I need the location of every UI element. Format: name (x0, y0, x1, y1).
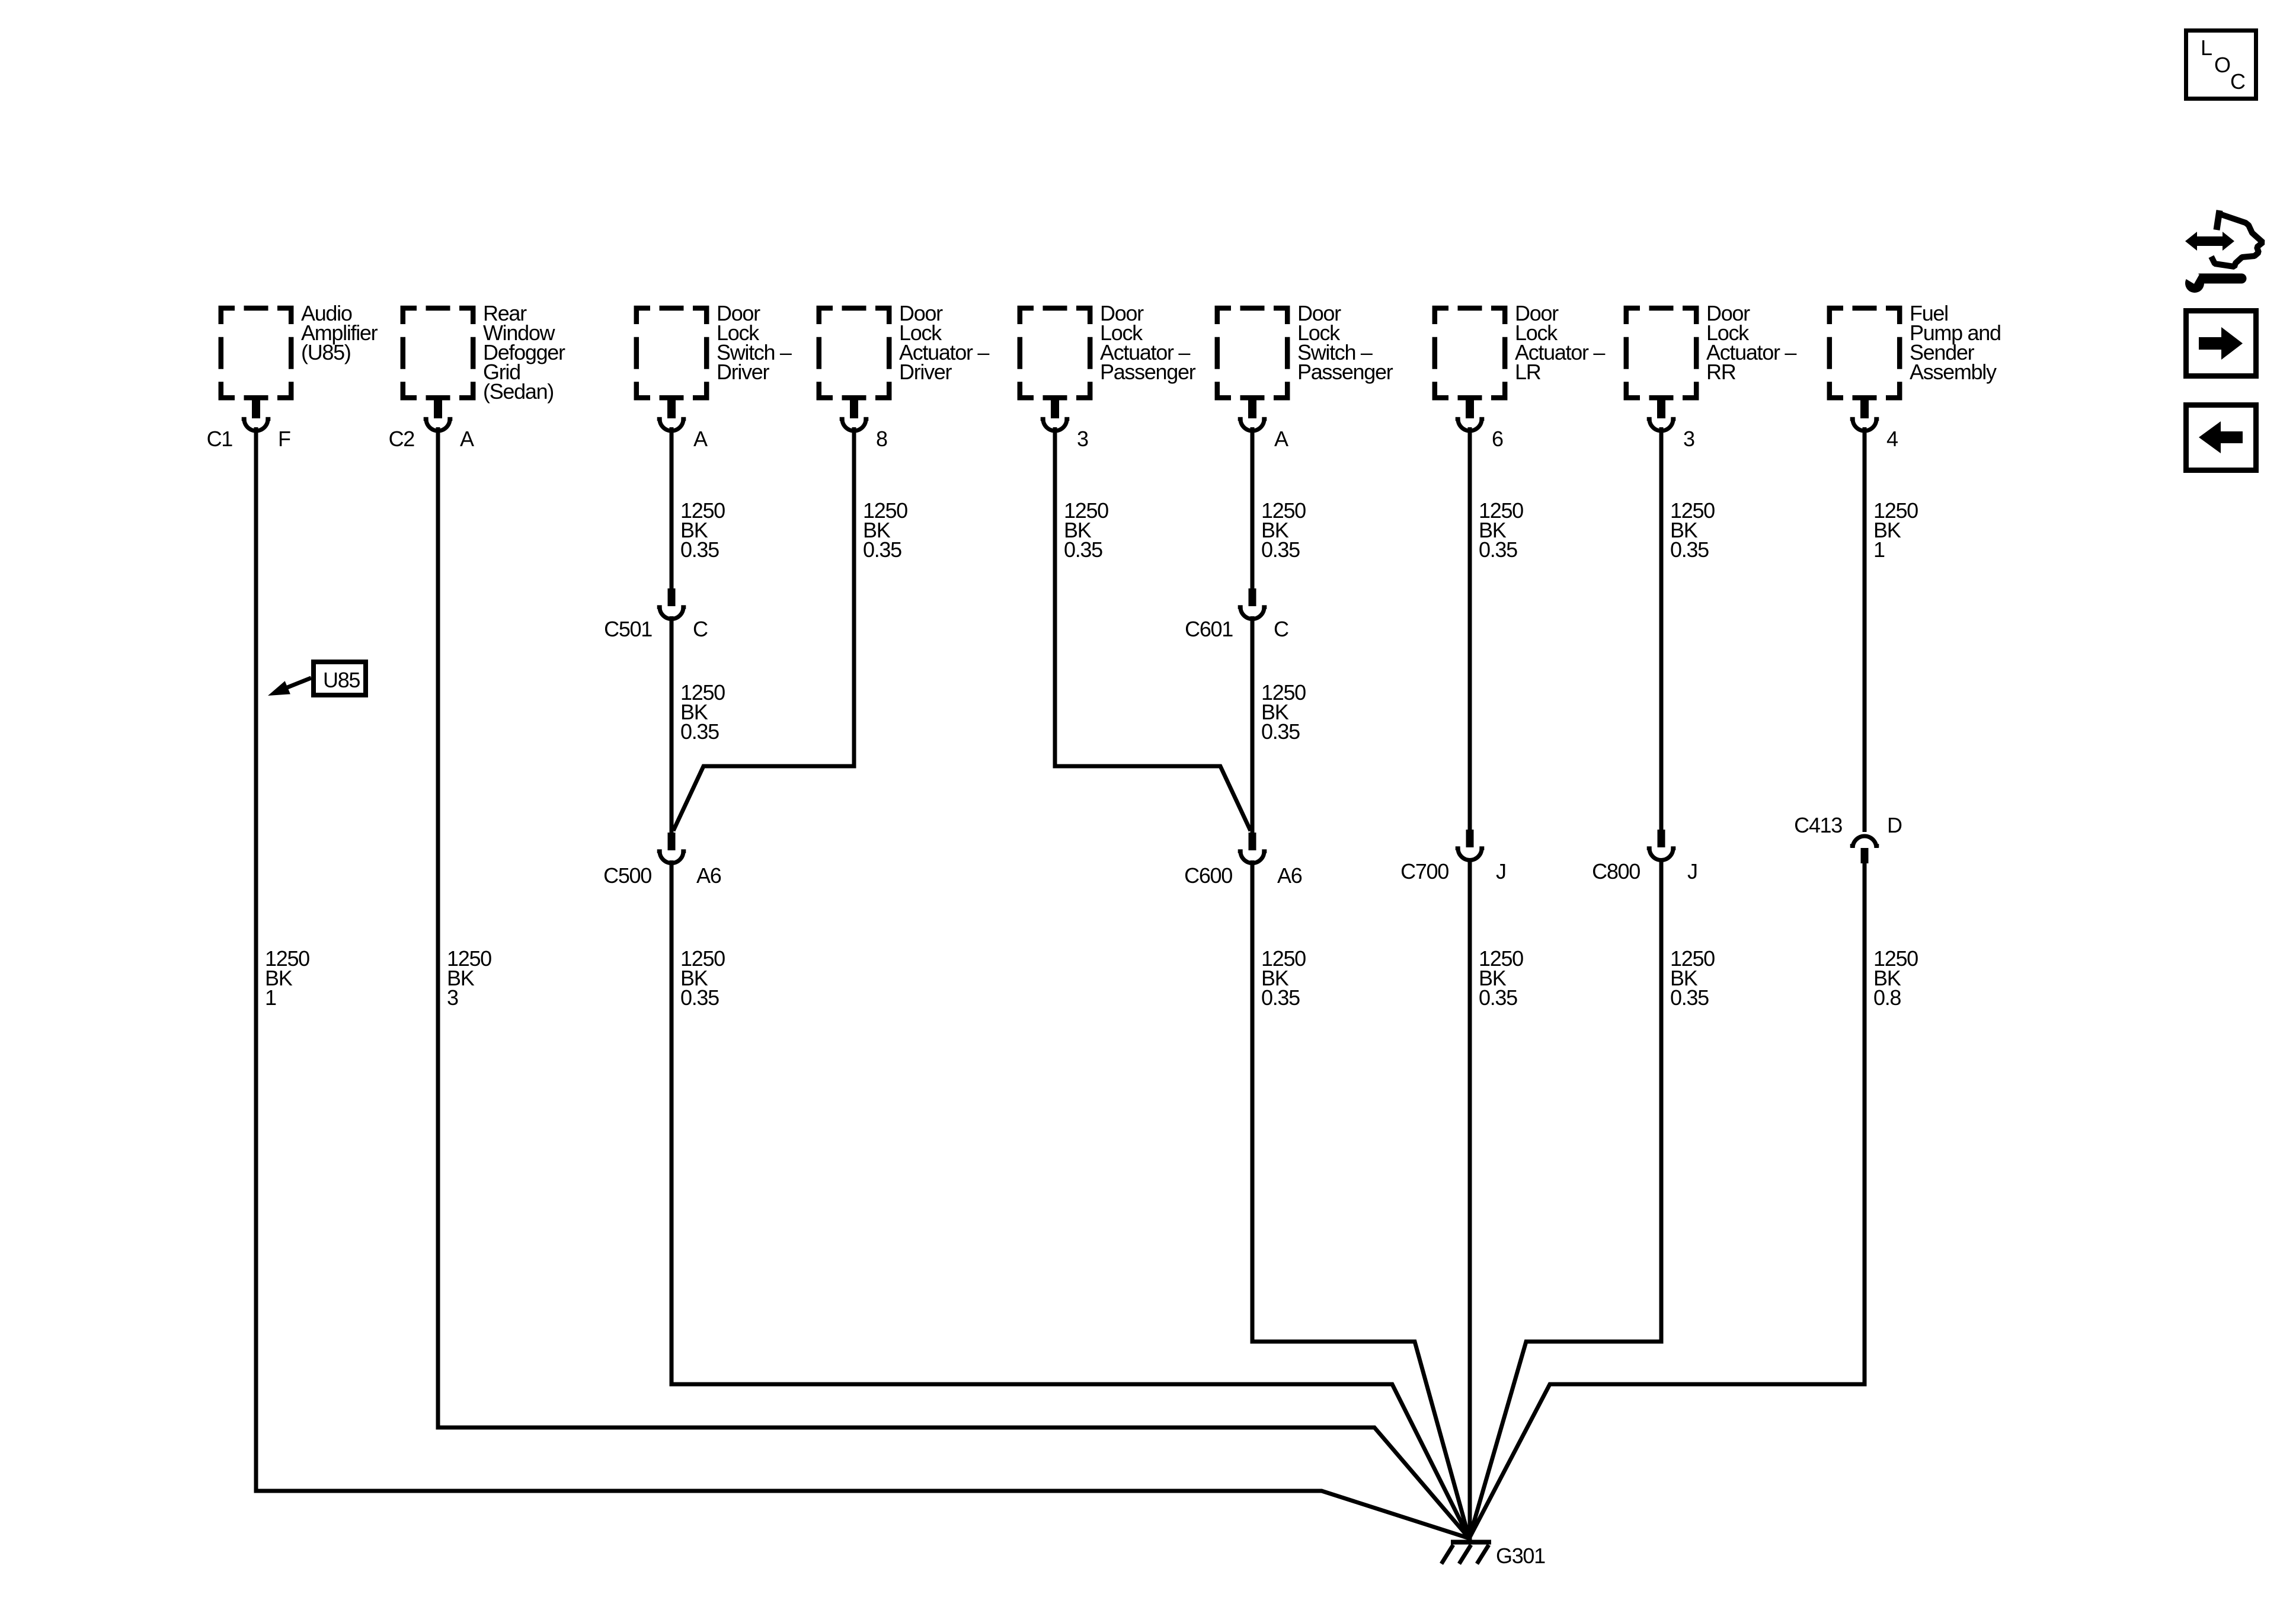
svg-text:L: L (2201, 36, 2212, 60)
wire Door Lock Actuator LR 6 to C700 (1468, 427, 1472, 830)
connector pin symbol at Rear Window Defogger Grid (Sedan) (424, 395, 453, 431)
pin label 6 at Door Lock Actuator - LR (1492, 427, 1503, 451)
wire label 1250 BK (upper) at x=2480 (1479, 498, 1523, 562)
svg-text:O: O (2214, 53, 2230, 77)
wire Door Lock Switch Driver A to C501 (670, 427, 674, 588)
wire C601 to C600 (1251, 616, 1255, 833)
pin label 4 at Fuel Pump and Sender Assembly (1886, 427, 1898, 451)
svg-text:0.35: 0.35 (680, 719, 719, 744)
wire Fuel Pump 4 to C413 (1863, 427, 1867, 832)
wire label 1250 BK 0.35 (middle) at x=2113 (1261, 680, 1306, 744)
icon: back arrow button (2186, 405, 2256, 470)
label text: Fuel Pump and Sender Assembly (1910, 301, 2001, 384)
svg-text:A6: A6 (696, 863, 721, 888)
svg-text:C501: C501 (604, 617, 652, 641)
svg-text:0.35: 0.35 (1261, 719, 1300, 744)
component box: Door Lock Actuator - Passenger (1020, 308, 1090, 398)
svg-text:8: 8 (876, 427, 887, 451)
wire label 1250 BK (lower) at x=739 (447, 946, 491, 1010)
svg-text:(Sedan): (Sedan) (483, 379, 554, 404)
svg-text:(U85): (U85) (301, 340, 351, 364)
svg-text:Passenger: Passenger (1297, 360, 1393, 384)
label text: Door Lock Switch - Driver (717, 301, 792, 384)
svg-text:J: J (1496, 859, 1506, 884)
svg-text:Assembly: Assembly (1910, 360, 1997, 384)
svg-text:A: A (693, 427, 708, 451)
icon: component location (car outline with arrow and wrench) (2185, 210, 2263, 293)
label C500 / pin A6 (603, 863, 721, 888)
wire label 1250 BK (lower) at x=1133 (680, 946, 725, 1010)
LOC legend box (2186, 31, 2256, 99)
svg-text:C: C (1274, 617, 1288, 641)
svg-text:C1: C1 (207, 427, 233, 451)
svg-text:C601: C601 (1185, 617, 1233, 641)
inline connector C800 (1647, 830, 1676, 860)
svg-text:1: 1 (1873, 537, 1885, 562)
component box: Door Lock Actuator - Driver (819, 308, 889, 398)
svg-text:0.35: 0.35 (863, 537, 901, 562)
svg-text:0.35: 0.35 (1261, 537, 1300, 562)
wire label 1250 BK (upper) at x=3146 (1873, 498, 1918, 562)
wire C501 to C500 (670, 616, 674, 833)
svg-text:Passenger: Passenger (1100, 360, 1196, 384)
svg-text:0.35: 0.35 (680, 537, 719, 562)
svg-text:U85: U85 (323, 668, 360, 692)
svg-text:0.35: 0.35 (680, 985, 719, 1010)
wire label 1250 BK (upper) at x=1441 (863, 498, 907, 562)
connector pin symbol at Audio Amplifier (U85) (242, 395, 271, 431)
wire C800 to G301 (1469, 858, 1661, 1538)
wire label 1250 BK (lower) at x=2480 (1479, 946, 1523, 1010)
wire Door Lock Actuator RR 3 to C800 (1659, 427, 1664, 830)
svg-text:0.35: 0.35 (1261, 985, 1300, 1010)
svg-text:A6: A6 (1277, 863, 1302, 888)
inline connector C700 (1456, 830, 1485, 860)
label text: Rear Window Defogger Grid (Sedan) (483, 301, 565, 404)
label C800 / pin J (1592, 859, 1697, 884)
component box: Rear Window Defogger Grid (Sedan) (403, 308, 473, 398)
svg-text:A: A (1274, 427, 1288, 451)
svg-text:C413: C413 (1794, 813, 1842, 837)
connector pin symbol at Fuel Pump and Sender Assembly (1850, 395, 1879, 431)
component box: Fuel Pump and Sender Assembly (1830, 308, 1900, 398)
label C601 / pin C (1185, 617, 1288, 641)
label text: Door Lock Actuator - Passenger (1100, 301, 1196, 384)
wire label 1250 BK (upper) at x=1133 (680, 498, 725, 562)
label G301 (1496, 1544, 1545, 1568)
callout U85 (314, 662, 366, 695)
label text: Door Lock Actuator - RR (1706, 301, 1796, 384)
svg-text:0.35: 0.35 (1670, 985, 1709, 1010)
pin label F at Audio Amplifier (U85) (278, 427, 290, 451)
svg-text:6: 6 (1492, 427, 1503, 451)
inline connector C601 (1238, 588, 1267, 619)
svg-text:C800: C800 (1592, 859, 1640, 884)
pin label 8 at Door Lock Actuator - Driver (876, 427, 887, 451)
wire C600 to G301 (1252, 860, 1469, 1538)
connector pin symbol at Door Lock Switch - Passenger (1238, 395, 1267, 431)
svg-text:0.8: 0.8 (1873, 985, 1901, 1010)
component box: Door Lock Actuator - RR (1626, 308, 1696, 398)
label C600 / pin A6 (1184, 863, 1302, 888)
svg-text:1: 1 (265, 985, 276, 1010)
svg-text:C: C (2230, 69, 2245, 94)
svg-text:LR: LR (1515, 360, 1541, 384)
label C700 / pin J (1400, 859, 1506, 884)
wire label 1250 BK (lower) at x=432 (265, 946, 309, 1010)
wire label 1250 BK (upper) at x=1780 (1064, 498, 1108, 562)
svg-text:C2: C2 (389, 427, 415, 451)
wire Door Lock Actuator Passenger 3 to C600 (1055, 427, 1251, 831)
pin label A at Rear Window Defogger Grid (Sedan) (460, 427, 474, 451)
wire C500 to G301 (671, 860, 1469, 1538)
label text: Audio Amplifier (U85) (301, 301, 378, 364)
label text: Door Lock Actuator - LR (1515, 301, 1605, 384)
svg-text:4: 4 (1886, 427, 1898, 451)
wire C700 to G301 (1468, 858, 1472, 1541)
wire label 1250 BK (lower) at x=2113 (1261, 946, 1306, 1010)
svg-text:C: C (693, 617, 708, 641)
wire label 1250 BK (upper) at x=2113 (1261, 498, 1306, 562)
svg-text:C500: C500 (603, 863, 651, 888)
component box: Door Lock Switch - Driver (637, 308, 706, 398)
connector pin symbol at Door Lock Actuator - Passenger (1041, 395, 1070, 431)
label C413 / pin D (1794, 813, 1902, 837)
wire label 1250 BK (lower) at x=3146 (1873, 946, 1918, 1010)
pin label 3 at Door Lock Actuator - RR (1683, 427, 1694, 451)
component box: Audio Amplifier (U85) (221, 308, 291, 398)
inline connector C500 (657, 833, 686, 863)
icon: forward arrow button (2186, 311, 2256, 376)
connector pin symbol at Door Lock Actuator - RR (1647, 395, 1676, 431)
wire Door Lock Actuator Driver 8 to C500 (673, 427, 854, 831)
svg-text:3: 3 (1077, 427, 1088, 451)
pin label 3 at Door Lock Actuator - Passenger (1077, 427, 1088, 451)
ground G301 (1441, 1542, 1491, 1564)
component box: Door Lock Actuator - LR (1435, 308, 1505, 398)
pin label A at Door Lock Switch - Driver (693, 427, 708, 451)
svg-text:D: D (1887, 813, 1902, 837)
svg-text:0.35: 0.35 (1064, 537, 1102, 562)
wire from Rear Defogger C2-A to G301 (438, 427, 1469, 1538)
svg-text:0.35: 0.35 (1479, 985, 1517, 1010)
wire from Audio Amplifier C1-F to G301 (256, 427, 1469, 1538)
label text: Door Lock Actuator - Driver (899, 301, 989, 384)
wire Door Lock Switch Passenger A to C601 (1251, 427, 1255, 588)
component box: Door Lock Switch - Passenger (1217, 308, 1287, 398)
connector label C2 at Rear Window Defogger Grid (Sedan) (389, 427, 415, 451)
label C501 / pin C (604, 617, 708, 641)
svg-text:Driver: Driver (899, 360, 952, 384)
wire C413 to G301 (1469, 863, 1865, 1538)
svg-text:C600: C600 (1184, 863, 1232, 888)
wire label 1250 BK (lower) at x=2803 (1670, 946, 1715, 1010)
inline connector C413 (flipped) (1850, 836, 1879, 863)
connector label C1 at Audio Amplifier (U85) (207, 427, 233, 451)
svg-text:F: F (278, 427, 290, 451)
connector pin symbol at Door Lock Actuator - LR (1456, 395, 1485, 431)
svg-text:G301: G301 (1496, 1544, 1545, 1568)
svg-text:3: 3 (447, 985, 458, 1010)
pin label A at Door Lock Switch - Passenger (1274, 427, 1288, 451)
svg-text:Driver: Driver (717, 360, 770, 384)
svg-text:3: 3 (1683, 427, 1694, 451)
svg-text:A: A (460, 427, 474, 451)
wire label 1250 BK 0.35 (middle) at x=1133 (680, 680, 725, 744)
label text: Door Lock Switch - Passenger (1297, 301, 1393, 384)
svg-text:0.35: 0.35 (1670, 537, 1709, 562)
connector pin symbol at Door Lock Switch - Driver (657, 395, 686, 431)
inline connector C501 (657, 588, 686, 619)
svg-text:J: J (1687, 859, 1697, 884)
wire label 1250 BK (upper) at x=2803 (1670, 498, 1715, 562)
svg-text:C700: C700 (1400, 859, 1448, 884)
connector pin symbol at Door Lock Actuator - Driver (840, 395, 869, 431)
svg-text:RR: RR (1706, 360, 1736, 384)
inline connector C600 (1238, 833, 1267, 863)
callout arrow to wire (268, 678, 311, 696)
svg-text:0.35: 0.35 (1479, 537, 1517, 562)
